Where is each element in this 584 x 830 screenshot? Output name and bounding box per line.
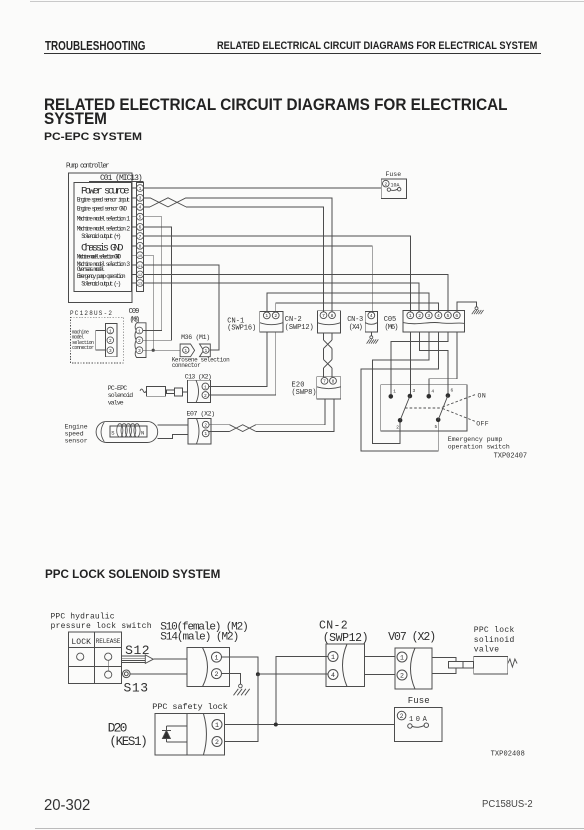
svg-text:5: 5	[435, 424, 438, 430]
svg-text:2: 2	[400, 713, 404, 720]
svg-text:PPC safety lock: PPC safety lock	[152, 702, 228, 712]
svg-text:C01 (MIC13): C01 (MIC13)	[100, 174, 143, 183]
svg-text:Pump controller: Pump controller	[66, 162, 110, 170]
svg-text:PC128US-2: PC128US-2	[70, 310, 113, 317]
svg-text:E07 (X2): E07 (X2)	[187, 411, 216, 418]
svg-text:Emergency pump: Emergency pump	[448, 436, 503, 443]
svg-text:Machine model selection 1: Machine model selection 1	[77, 215, 131, 222]
svg-text:4: 4	[331, 672, 335, 679]
svg-text:(KES1): (KES1)	[109, 735, 147, 749]
svg-text:(SWP8): (SWP8)	[292, 389, 317, 397]
svg-text:V07 (X2): V07 (X2)	[388, 631, 436, 644]
svg-text:7: 7	[322, 313, 325, 319]
svg-text:S12: S12	[125, 643, 150, 658]
svg-text:7: 7	[323, 379, 326, 385]
svg-text:10A: 10A	[391, 183, 400, 189]
svg-text:TXP02407: TXP02407	[494, 453, 527, 461]
svg-text:2: 2	[204, 393, 207, 399]
svg-text:valve: valve	[474, 646, 500, 655]
svg-text:(SWP16): (SWP16)	[227, 325, 256, 333]
svg-text:speed: speed	[65, 431, 84, 438]
svg-text:1: 1	[400, 654, 404, 661]
svg-text:7: 7	[139, 234, 142, 240]
svg-text:ON: ON	[478, 392, 486, 399]
svg-text:6: 6	[455, 313, 458, 319]
svg-text:LOCK: LOCK	[71, 638, 91, 647]
svg-text:sensor: sensor	[65, 438, 88, 445]
svg-text:Chassis GND: Chassis GND	[81, 242, 124, 254]
svg-text:Emergency pump operation: Emergency pump operation	[77, 273, 126, 280]
svg-text:solinoid: solinoid	[474, 636, 515, 645]
svg-text:3: 3	[413, 388, 416, 394]
svg-text:(X4): (X4)	[349, 324, 363, 332]
svg-text:D20: D20	[108, 721, 128, 736]
svg-text:1: 1	[204, 384, 207, 390]
svg-text:3: 3	[139, 196, 142, 202]
svg-text:5: 5	[139, 215, 142, 221]
svg-text:(M3): (M3)	[130, 316, 141, 324]
svg-text:connector: connector	[172, 362, 201, 369]
svg-text:pressure lock switch: pressure lock switch	[51, 622, 152, 631]
svg-text:Fuse: Fuse	[386, 171, 402, 178]
svg-text:11: 11	[138, 265, 142, 269]
svg-text:S: S	[111, 430, 115, 437]
svg-text:2: 2	[400, 672, 404, 679]
svg-text:1: 1	[215, 654, 219, 661]
svg-text:12: 12	[138, 274, 142, 278]
svg-text:Engine speed sensor input: Engine speed sensor input	[77, 197, 131, 204]
svg-text:1: 1	[184, 348, 187, 354]
svg-text:1: 1	[393, 389, 396, 395]
svg-text:Machine model selection GND: Machine model selection GND	[77, 254, 122, 261]
svg-text:1: 1	[139, 186, 142, 192]
svg-text:1: 1	[331, 654, 335, 661]
svg-text:6: 6	[451, 388, 454, 394]
svg-text:(SWP12): (SWP12)	[323, 632, 369, 645]
svg-text:S14(male) (M2): S14(male) (M2)	[160, 632, 239, 644]
svg-text:1: 1	[138, 328, 141, 334]
svg-text:CN-2: CN-2	[319, 619, 348, 632]
svg-text:2: 2	[109, 338, 112, 344]
svg-text:2: 2	[215, 739, 219, 746]
svg-text:valve: valve	[108, 399, 124, 406]
svg-text:Solenoid output (+): Solenoid output (+)	[81, 233, 121, 240]
svg-text:4: 4	[437, 313, 440, 319]
svg-text:PC-EPC: PC-EPC	[108, 385, 128, 392]
svg-text:13: 13	[138, 283, 142, 287]
svg-text:solenoid: solenoid	[108, 392, 134, 399]
svg-text:1: 1	[205, 348, 208, 354]
svg-text:(M6): (M6)	[385, 324, 399, 332]
svg-text:C09: C09	[129, 308, 140, 316]
svg-text:Fuse: Fuse	[408, 696, 430, 706]
svg-text:3: 3	[138, 348, 141, 354]
svg-text:(SWP12): (SWP12)	[285, 324, 314, 332]
svg-text:1: 1	[215, 722, 219, 729]
svg-text:8: 8	[331, 313, 334, 319]
svg-text:4: 4	[431, 389, 434, 395]
svg-text:PPC lock: PPC lock	[474, 626, 515, 635]
svg-text:PPC hydraulic: PPC hydraulic	[51, 613, 115, 622]
svg-text:10A: 10A	[409, 716, 428, 724]
svg-text:4: 4	[370, 313, 373, 319]
svg-text:2: 2	[384, 181, 387, 187]
svg-text:Engine speed sensor GND: Engine speed sensor GND	[77, 206, 128, 213]
svg-text:8: 8	[332, 379, 335, 385]
svg-text:Solenoid output (-): Solenoid output (-)	[81, 281, 121, 288]
svg-text:6: 6	[139, 225, 142, 231]
svg-text:N: N	[141, 430, 144, 437]
svg-text:TXP02408: TXP02408	[491, 751, 525, 759]
svg-text:2: 2	[418, 313, 421, 319]
svg-text:RELEASE: RELEASE	[96, 638, 121, 645]
svg-text:1: 1	[409, 313, 412, 319]
svg-text:Engine: Engine	[65, 424, 88, 431]
svg-text:connector: connector	[72, 345, 94, 351]
svg-text:C13 (X2): C13 (X2)	[185, 374, 212, 381]
svg-text:1: 1	[265, 313, 268, 319]
svg-text:S13: S13	[124, 680, 149, 695]
svg-text:1: 1	[109, 328, 112, 334]
svg-text:2: 2	[274, 313, 277, 319]
svg-text:4: 4	[139, 205, 142, 211]
svg-text:2: 2	[204, 423, 207, 429]
svg-text:5: 5	[447, 313, 450, 319]
svg-text:3: 3	[427, 313, 430, 319]
svg-text:2: 2	[215, 671, 219, 678]
svg-text:OFF: OFF	[476, 421, 488, 428]
svg-text:1: 1	[204, 431, 207, 437]
svg-text:Machine model selection 2: Machine model selection 2	[77, 226, 131, 233]
svg-text:2: 2	[138, 338, 141, 344]
svg-text:10: 10	[138, 255, 142, 259]
svg-text:2: 2	[396, 424, 399, 430]
svg-text:3: 3	[109, 348, 112, 354]
svg-text:M36 (M1): M36 (M1)	[181, 334, 210, 341]
svg-text:8: 8	[139, 244, 142, 250]
svg-text:operation switch: operation switch	[448, 443, 510, 450]
svg-text:Overseas model: Overseas model	[77, 266, 105, 273]
